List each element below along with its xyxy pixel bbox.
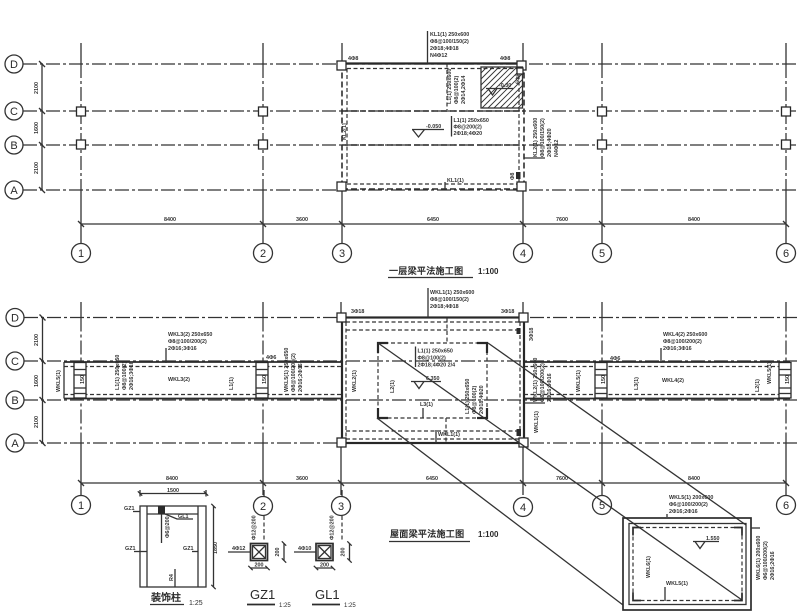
- svg-text:WKL5(1) 250x650: WKL5(1) 250x650: [284, 348, 290, 392]
- bottom dimension line (plan1): [78, 217, 789, 227]
- column 2-C (plan1): [259, 107, 268, 116]
- canopy slab dashed outline (plan2): [378, 343, 487, 418]
- leader from bubble3 to GL1: [341, 490, 343, 496]
- svg-text:D: D: [10, 59, 18, 71]
- svg-text:3600: 3600: [296, 217, 308, 223]
- svg-text:1:100: 1:100: [478, 530, 499, 539]
- svg-text:B: B: [10, 140, 17, 152]
- svg-text:2Φ18;4Φ20 2/4: 2Φ18;4Φ20 2/4: [418, 363, 456, 369]
- canopy enlarged detail: [623, 495, 776, 610]
- annotation WKL5 rotated right of grid2 (plan2): [284, 348, 304, 392]
- svg-text:1:25: 1:25: [279, 603, 291, 609]
- svg-text:Φ8@100(2): Φ8@100(2): [454, 76, 460, 104]
- svg-text:L1(1) 250x600: L1(1) 250x600: [447, 69, 453, 104]
- svg-text:2Φ18;4Φ18: 2Φ18;4Φ18: [430, 46, 459, 52]
- svg-text:L1(1) 250x650: L1(1) 250x650: [418, 349, 453, 355]
- roof beam strip WKL4 right segment (plan2): [524, 362, 790, 399]
- svg-text:Φ8@100(2): Φ8@100(2): [122, 362, 128, 390]
- level symbol center (plan1): [412, 124, 444, 137]
- svg-text:KL2(1) 250x600: KL2(1) 250x600: [533, 118, 539, 157]
- column 5-B (plan1): [598, 140, 607, 149]
- svg-text:Φ8@200(2): Φ8@200(2): [454, 125, 482, 131]
- canopy level symbol: [693, 536, 720, 549]
- svg-text:2Φ18;4Φ20: 2Φ18;4Φ20: [479, 385, 485, 414]
- svg-text:Φ6@100/200(2): Φ6@100/200(2): [669, 502, 708, 508]
- grid bubble 3 (plan2): [332, 497, 351, 516]
- svg-text:1:25: 1:25: [189, 600, 203, 607]
- beam annotation L1 250x650 (plan1): [452, 116, 489, 137]
- corner column 4-A (plan2): [519, 438, 528, 447]
- grid bubble 4 (plan1): [514, 244, 533, 263]
- svg-text:1.550: 1.550: [706, 536, 720, 542]
- grid bubble 1 (plan1): [72, 244, 91, 263]
- canopy outer rect: [623, 518, 751, 610]
- canopy inner rect: [629, 524, 746, 605]
- grid bubble C (plan2): [6, 352, 24, 370]
- svg-text:150: 150: [262, 375, 268, 384]
- svg-text:Φ8@100/150(2): Φ8@100/150(2): [430, 297, 469, 303]
- canopy annotation WKL6 right rotated: [751, 528, 776, 580]
- svg-text:L3(1): L3(1): [634, 377, 640, 390]
- grid line 3 (plan2): [340, 302, 342, 495]
- svg-text:KL1(1): KL1(1): [447, 178, 464, 184]
- svg-text:4Φ8: 4Φ8: [348, 56, 358, 62]
- svg-text:WKL4(2): WKL4(2): [662, 378, 684, 384]
- svg-text:L3(1): L3(1): [420, 402, 433, 408]
- column 2-B (plan1): [259, 140, 268, 149]
- corner column 3-D (plan1): [337, 61, 346, 70]
- svg-text:2Φ18;4Φ18: 2Φ18;4Φ18: [430, 304, 459, 310]
- svg-text:4Φ8: 4Φ8: [500, 56, 510, 62]
- grid bubble 4 (plan2): [514, 498, 533, 517]
- svg-text:3Φ18: 3Φ18: [501, 309, 514, 315]
- label GZ1 top left: [124, 506, 140, 512]
- svg-text:Φ8@100/150(2): Φ8@100/150(2): [540, 118, 546, 157]
- svg-text:N4Φ12: N4Φ12: [430, 53, 447, 59]
- beam end bracket grid6 (plan2): [779, 363, 791, 399]
- svg-text:Φ8@100/150(2): Φ8@100/150(2): [430, 39, 469, 45]
- GL1 square section: [316, 544, 333, 561]
- svg-text:GZ1: GZ1: [250, 587, 275, 602]
- svg-text:2100: 2100: [34, 82, 40, 94]
- svg-text:4Φ6: 4Φ6: [610, 356, 620, 362]
- beam label KL1 bottom (plan1): [445, 178, 464, 189]
- svg-text:GL1: GL1: [315, 587, 340, 602]
- black rebar mark top right (plan2): [517, 328, 521, 334]
- svg-text:WKL1(1): WKL1(1): [534, 411, 540, 433]
- beam annotation L1 rotated right (plan2): [465, 379, 485, 414]
- rebar mark bottom right (plan1): [510, 172, 521, 180]
- grid bubble D (plan2): [6, 309, 24, 327]
- svg-text:A: A: [11, 438, 19, 450]
- beam end bracket grid2 (plan2): [256, 363, 268, 399]
- svg-text:4Φ12: 4Φ12: [232, 546, 245, 552]
- svg-text:R4: R4: [169, 574, 175, 581]
- svg-text:2100: 2100: [34, 334, 40, 346]
- svg-text:8400: 8400: [166, 476, 178, 482]
- svg-text:-0.050: -0.050: [426, 124, 441, 130]
- svg-text:L1(1) 250x650: L1(1) 250x650: [454, 118, 489, 124]
- svg-text:8400: 8400: [164, 217, 176, 223]
- svg-text:WKL6(1) 200x600: WKL6(1) 200x600: [756, 536, 762, 580]
- detail callout diagonal C: [488, 343, 746, 525]
- left dimension line (plan2): [34, 315, 46, 447]
- beam label L3 (plan2): [420, 402, 433, 418]
- beam annotation L1 rotated left strip (plan2): [115, 355, 135, 390]
- beam box outline (plan1): [337, 64, 526, 191]
- svg-text:B: B: [11, 395, 18, 407]
- svg-text:3600: 3600: [296, 476, 308, 482]
- svg-text:7600: 7600: [556, 217, 568, 223]
- svg-text:GZ1: GZ1: [183, 546, 193, 552]
- svg-text:Φ8@100/200(2): Φ8@100/200(2): [168, 339, 207, 345]
- grid bubble 1 (plan2): [72, 496, 91, 515]
- decorative column elevation outline: [140, 506, 206, 587]
- svg-text:GL1: GL1: [178, 514, 188, 520]
- svg-text:A: A: [10, 185, 18, 197]
- grid bubble 6 (plan1): [777, 244, 796, 263]
- hatched slab opening (plan1): [481, 67, 523, 108]
- svg-text:6: 6: [783, 248, 789, 260]
- top dimension decorative column: [138, 488, 208, 497]
- svg-text:2Φ16;2Φ16: 2Φ16;2Φ16: [669, 509, 698, 515]
- grid line B (plan1): [23, 144, 797, 146]
- annotation WKL1 top (plan2): [428, 288, 474, 318]
- grid line 1 (plan2): [80, 302, 82, 495]
- svg-text:1:100: 1:100: [478, 267, 499, 276]
- annotation WKL2 right rotated (plan2): [524, 358, 553, 403]
- svg-text:Φ8@100(2): Φ8@100(2): [418, 356, 446, 362]
- svg-text:1: 1: [78, 248, 84, 260]
- svg-text:WKL5(1): WKL5(1): [576, 370, 582, 392]
- svg-text:屋面梁平法施工图: 屋面梁平法施工图: [390, 528, 464, 539]
- svg-text:WKL5(1): WKL5(1): [767, 362, 773, 384]
- svg-text:2100: 2100: [34, 162, 40, 174]
- grid line 4 (plan2): [522, 302, 524, 495]
- GL1 bottom dimension 200: [316, 567, 333, 569]
- svg-text:4: 4: [520, 248, 526, 260]
- svg-text:L2(1): L2(1): [755, 379, 761, 392]
- svg-text:L1(1) 250x650: L1(1) 250x650: [115, 355, 121, 390]
- grid line C (plan2): [24, 360, 797, 362]
- svg-text:150: 150: [785, 375, 791, 384]
- corner column 4-D (plan2): [519, 313, 528, 322]
- svg-text:WKL5(1): WKL5(1): [56, 370, 62, 392]
- grid line 2 (plan2): [262, 302, 264, 495]
- svg-text:WKL3(2): WKL3(2): [168, 377, 190, 383]
- svg-text:6450: 6450: [426, 476, 438, 482]
- svg-text:KL2(1): KL2(1): [342, 123, 348, 140]
- GZ1 left rebar label: [228, 551, 251, 553]
- label GZ1 mid right: [183, 546, 198, 552]
- column 5-C (plan1): [598, 107, 607, 116]
- canopy slab corner ticks: [633, 528, 742, 601]
- grid line 6 (plan1): [785, 43, 787, 244]
- svg-text:1500: 1500: [167, 488, 179, 494]
- svg-text:1:25: 1:25: [344, 603, 356, 609]
- svg-text:WKL4(2) 250x600: WKL4(2) 250x600: [663, 332, 707, 338]
- right dimension decorative column: [211, 504, 219, 589]
- GZ1 right dimension 200: [283, 544, 285, 561]
- grid line B (plan2): [24, 399, 797, 401]
- svg-text:2Φ16;3Φ16: 2Φ16;3Φ16: [168, 346, 197, 352]
- grid bubble 5 (plan1): [593, 244, 612, 263]
- svg-text:1: 1: [78, 500, 84, 512]
- svg-text:8400: 8400: [688, 217, 700, 223]
- svg-text:Φ8@100/200(2): Φ8@100/200(2): [291, 353, 297, 392]
- svg-text:2: 2: [260, 501, 266, 513]
- beam annotation KL2 right rotated (plan1): [524, 118, 560, 158]
- grid bubble D (plan1): [5, 55, 23, 73]
- svg-text:3Φ18: 3Φ18: [529, 328, 535, 341]
- svg-text:2Φ16;3Φ16: 2Φ16;3Φ16: [129, 361, 135, 390]
- svg-text:WKL1(1) 250x600: WKL1(1) 250x600: [430, 290, 474, 296]
- beam annotation L1 center (plan2): [416, 347, 456, 369]
- svg-text:装饰柱: 装饰柱: [150, 591, 181, 604]
- svg-text:200: 200: [320, 563, 329, 569]
- corner column 4-D (plan1): [517, 61, 526, 70]
- svg-text:3: 3: [338, 501, 344, 513]
- svg-text:C: C: [11, 356, 19, 368]
- svg-text:Φ6@200: Φ6@200: [165, 516, 171, 538]
- svg-text:-0.30: -0.30: [499, 83, 511, 89]
- column 1-B (plan1): [77, 140, 86, 149]
- svg-text:WKL2(1) 250x600: WKL2(1) 250x600: [533, 358, 539, 402]
- black rebar mark bottom right (plan2): [517, 429, 522, 436]
- svg-text:5: 5: [599, 248, 605, 260]
- svg-text:1600: 1600: [34, 375, 40, 387]
- svg-text:1850: 1850: [213, 542, 219, 554]
- bottom rebar note rotated: [169, 569, 175, 587]
- grid line 2 (plan1): [262, 43, 264, 244]
- grid bubble 2 (plan1): [254, 244, 273, 263]
- detail callout diagonal B: [377, 418, 623, 605]
- left dimension line (plan1): [34, 61, 45, 193]
- svg-text:WKL6(1): WKL6(1): [646, 556, 652, 578]
- grid bubble 5 (plan2): [593, 496, 612, 515]
- grid bubble B (plan1): [5, 136, 23, 154]
- svg-text:WKL2(1): WKL2(1): [352, 370, 358, 392]
- grid line A (plan2): [24, 442, 797, 444]
- roof beam strip WKL3 left segment (plan2): [64, 362, 342, 399]
- grid bubble C (plan1): [5, 102, 23, 120]
- grid bubble B (plan2): [6, 391, 24, 409]
- corner column 3-A (plan1): [337, 182, 346, 191]
- svg-text:8400: 8400: [688, 476, 700, 482]
- svg-text:2Φ16;2Φ16: 2Φ16;2Φ16: [770, 551, 776, 580]
- grid line 6 (plan2): [785, 302, 787, 495]
- canopy label WKL5 inside bottom: [665, 581, 688, 601]
- grid line 5 (plan2): [601, 302, 603, 495]
- svg-text:L2(1): L2(1): [390, 380, 396, 393]
- svg-text:150: 150: [601, 375, 607, 384]
- vertical dashed beam line top (plan2): [446, 318, 448, 343]
- grid line A (plan1): [23, 189, 797, 191]
- vertical dashed beam line bottom (plan2): [445, 418, 447, 443]
- svg-text:Φ12@200: Φ12@200: [252, 515, 258, 540]
- svg-text:6450: 6450: [427, 217, 439, 223]
- column 6-B (plan1): [782, 140, 791, 149]
- svg-text:200: 200: [275, 548, 281, 557]
- grid bubble A (plan1): [5, 181, 23, 199]
- svg-text:2Φ16;2Φ16: 2Φ16;2Φ16: [298, 363, 304, 392]
- svg-text:2Φ16;3Φ16: 2Φ16;3Φ16: [663, 346, 692, 352]
- svg-text:2Φ14,2Φ14: 2Φ14,2Φ14: [461, 76, 467, 104]
- svg-text:1600: 1600: [34, 122, 40, 134]
- svg-text:6Φ8: 6Φ8: [516, 74, 522, 84]
- svg-text:3Φ18: 3Φ18: [351, 309, 364, 315]
- svg-text:WKL5(1) 200x600: WKL5(1) 200x600: [669, 495, 713, 501]
- svg-text:4Φ10: 4Φ10: [298, 546, 311, 552]
- corner column 3-A (plan2): [337, 438, 346, 447]
- grid line C (plan1): [23, 110, 797, 112]
- svg-text:一层梁平法施工图: 一层梁平法施工图: [389, 265, 463, 276]
- central box outline (plan2): [342, 318, 524, 444]
- svg-text:L1(1): L1(1): [229, 377, 235, 390]
- leader from bubble2 to GZ1: [263, 490, 265, 496]
- column 1-C (plan1): [77, 107, 86, 116]
- svg-text:4: 4: [520, 502, 526, 514]
- svg-text:2Φ18;4Φ20: 2Φ18;4Φ20: [547, 128, 553, 157]
- column 6-C (plan1): [782, 107, 791, 116]
- GZ1 square section: [251, 544, 268, 561]
- svg-text:GZ1: GZ1: [125, 546, 135, 552]
- grid line 1 (plan1): [80, 43, 82, 244]
- svg-text:2100: 2100: [34, 416, 40, 428]
- svg-text:200: 200: [341, 548, 347, 557]
- detail callout diagonal A: [378, 343, 742, 600]
- grid bubble 3 (plan1): [333, 244, 352, 263]
- svg-text:WKL5(1): WKL5(1): [666, 581, 688, 587]
- grid bubble A (plan2): [6, 434, 24, 452]
- grid bubble 6 (plan2): [777, 496, 796, 515]
- svg-text:3: 3: [339, 248, 345, 260]
- GL1 beam section filled: [158, 506, 193, 543]
- beam label WKL1 bottom (plan2): [436, 430, 460, 443]
- GZ1 section detail: [228, 490, 291, 609]
- grid line 3 (plan1): [341, 43, 343, 244]
- beam end bracket grid1 (plan2): [74, 363, 86, 399]
- title decorative column: [150, 591, 203, 607]
- annotation WKL4 top right (plan2): [661, 332, 707, 363]
- svg-text:C: C: [10, 106, 18, 118]
- canopy dashed slab edge: [633, 528, 742, 601]
- svg-text:150: 150: [80, 375, 86, 384]
- svg-text:Φ6@100/200(2): Φ6@100/200(2): [763, 541, 769, 580]
- beam end bracket grid5 (plan2): [595, 363, 607, 399]
- bottom dimension line (plan2): [78, 476, 789, 486]
- level symbol canopy (plan2): [411, 376, 441, 389]
- svg-text:WKL3(2) 250x650: WKL3(2) 250x650: [168, 332, 212, 338]
- grid line D (plan2): [24, 317, 797, 319]
- beam annotation KL1 (plan1): [428, 31, 470, 64]
- title plan2: [389, 528, 499, 542]
- annotation WKL3 top left (plan2): [166, 332, 212, 363]
- grid line D (plan1): [23, 63, 797, 65]
- grid bubble 2 (plan2): [254, 497, 273, 516]
- label GZ1 mid left: [125, 546, 147, 552]
- title plan1: [388, 265, 499, 278]
- grid line 4 (plan1): [522, 43, 524, 244]
- svg-text:4Φ6: 4Φ6: [266, 355, 276, 361]
- GL1 section detail: [294, 490, 356, 609]
- svg-text:N4Φ12: N4Φ12: [554, 140, 560, 157]
- svg-text:GZ1: GZ1: [124, 506, 134, 512]
- beam L1 rotated annotation (plan1): [447, 64, 467, 111]
- corner column 4-A (plan1): [517, 182, 526, 191]
- svg-text:Φ12@200: Φ12@200: [330, 515, 336, 540]
- svg-text:6: 6: [783, 500, 789, 512]
- GZ1 bottom dimension 200: [251, 567, 268, 569]
- GL1 left rebar label: [294, 551, 316, 553]
- svg-text:Φ8@100/200(2): Φ8@100/200(2): [663, 339, 702, 345]
- svg-text:WKL1(1): WKL1(1): [438, 432, 460, 438]
- svg-text:2Φ18;4Φ20: 2Φ18;4Φ20: [454, 131, 483, 137]
- GL1 right dimension 200: [349, 544, 351, 561]
- grid line 5 (plan1): [601, 43, 603, 244]
- level symbol in hatch (plan1): [486, 83, 513, 95]
- corner column 3-D (plan2): [337, 313, 346, 322]
- svg-text:7600: 7600: [556, 476, 568, 482]
- svg-text:Φ8: Φ8: [510, 173, 516, 180]
- svg-text:D: D: [11, 313, 19, 325]
- svg-text:200: 200: [255, 563, 264, 569]
- svg-text:KL1(1) 250x600: KL1(1) 250x600: [430, 32, 469, 38]
- svg-text:2: 2: [260, 248, 266, 260]
- canopy annotation WKL5 top: [667, 495, 713, 517]
